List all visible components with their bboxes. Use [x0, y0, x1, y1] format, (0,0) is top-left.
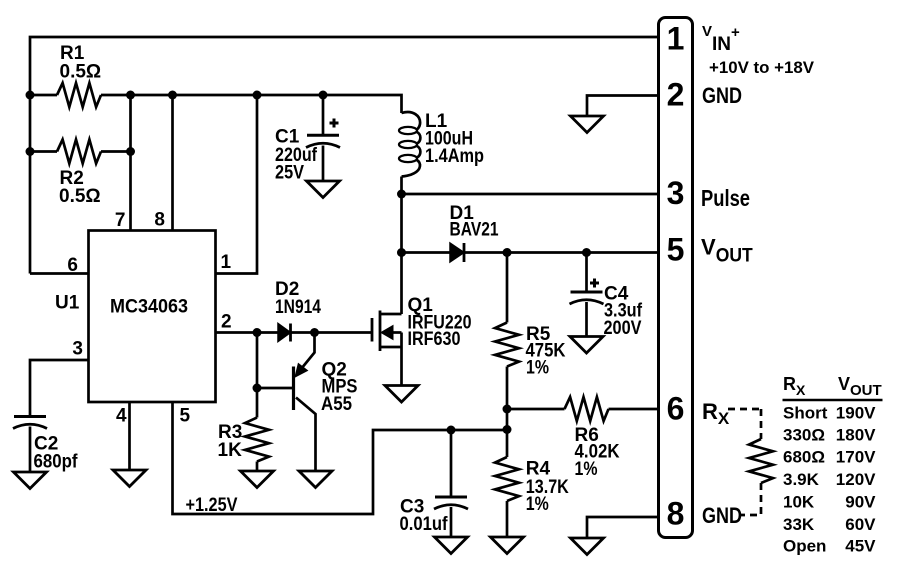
wire pin3 of U1 to C2	[30, 360, 89, 415]
svg-text:1: 1	[667, 21, 685, 57]
wire D2 anode node down to base node	[256, 333, 259, 389]
wire R5/R4 junction segment	[506, 409, 509, 430]
svg-text:Short: Short	[783, 404, 828, 423]
svg-text:4: 4	[116, 406, 127, 427]
node dot D2 anode junction	[253, 328, 262, 337]
node dot rail-R1 left	[26, 91, 35, 100]
wire base line to Q2	[257, 387, 293, 390]
wire dashed Rx down	[760, 409, 763, 439]
wire C3 bottom lead	[450, 507, 453, 537]
wire D2 cathode to Q1 gate	[291, 331, 373, 334]
svg-text:680pf: 680pf	[34, 452, 79, 473]
node dot R4 feedback junction	[503, 425, 512, 434]
svg-text:2: 2	[667, 77, 685, 113]
transistor Q1 MOSFET	[372, 311, 402, 386]
svg-text:3: 3	[72, 339, 83, 360]
svg-text:90V: 90V	[845, 493, 876, 512]
svg-text:GND: GND	[702, 503, 742, 528]
wire pin5 of U1 +1.25V feedback line	[173, 402, 508, 514]
node dot L1 pulse junction	[397, 190, 406, 199]
ground at pin8	[571, 538, 604, 555]
capacitor C4	[570, 279, 604, 305]
node dot D2 cathode junction	[310, 328, 319, 337]
node dot R5 Vout junction	[503, 248, 512, 257]
svg-text:680Ω: 680Ω	[783, 448, 825, 467]
wire R4 top lead	[506, 430, 509, 458]
svg-text:Open: Open	[783, 537, 826, 556]
node dot pin8 rail	[168, 91, 177, 100]
svg-text:1%: 1%	[526, 494, 549, 515]
svg-text:1%: 1%	[575, 459, 598, 480]
svg-text:7: 7	[115, 210, 126, 231]
svg-text:2: 2	[221, 312, 232, 333]
svg-text:5: 5	[667, 232, 685, 268]
node dot R1 right	[126, 91, 135, 100]
svg-text:U1: U1	[55, 293, 80, 314]
diode D1 BAV21	[450, 243, 464, 262]
svg-text:10K: 10K	[783, 493, 815, 512]
svg-text:1.4Amp: 1.4Amp	[425, 146, 484, 167]
capacitor C3	[434, 497, 468, 509]
wire Vout line left of D1	[402, 251, 451, 254]
wire R3 bottom lead	[256, 462, 259, 472]
wire R1 line to L1	[101, 95, 402, 113]
wire C4 bottom lead	[585, 302, 588, 337]
svg-text:IRF630: IRF630	[408, 329, 461, 350]
svg-text:A55: A55	[321, 394, 352, 415]
wire R5 bottom lead	[506, 367, 509, 410]
svg-text:BAV21: BAV21	[450, 220, 499, 241]
wire pin1 of U1 jog up to rail	[216, 95, 258, 274]
wire pin6 of U1 to left rail	[30, 272, 89, 275]
node dot D1 anode junction	[397, 248, 406, 257]
svg-text:3: 3	[667, 175, 685, 211]
ground under Q1 source	[385, 386, 418, 403]
resistor R1	[57, 83, 101, 107]
ground under C1	[307, 181, 340, 198]
ground under R4	[491, 537, 524, 554]
node dot R5 R6 junction	[503, 405, 512, 414]
wire top rail Vin from pin1 to left and down left side	[30, 37, 659, 274]
ground under pin4	[113, 470, 146, 487]
resistor R3	[245, 418, 269, 462]
resistor R4	[495, 457, 519, 501]
ground at pin2	[571, 116, 604, 133]
table header underline	[783, 399, 883, 401]
capacitor C2	[13, 417, 47, 429]
wire pin8 vertical	[171, 95, 174, 231]
svg-text:8: 8	[154, 210, 165, 231]
transistor Q2 MPS A55	[294, 333, 316, 472]
resistor R6	[565, 397, 609, 421]
wire pin8 gnd stub	[587, 517, 659, 538]
wire R2 right to vertical	[101, 150, 131, 153]
svg-text:120V: 120V	[836, 470, 876, 489]
wire pin4 of U1 down	[128, 402, 131, 470]
wire L1 bottom through pulse node and Vout node to Q1 drain	[400, 177, 403, 315]
svg-text:Pulse: Pulse	[701, 185, 750, 211]
node dot C3 junction	[447, 426, 456, 435]
svg-text:60V: 60V	[845, 515, 876, 534]
inductor L1	[399, 112, 420, 176]
svg-text:45V: 45V	[845, 537, 876, 556]
connector box	[659, 18, 693, 538]
wire C2 bottom lead	[29, 427, 32, 473]
node dot R2 right	[126, 147, 135, 156]
ground under Q2	[299, 471, 332, 488]
wire pin2 gnd stub	[587, 96, 659, 117]
wire pin6 line left of R6	[507, 408, 565, 411]
diode D2 1N914	[278, 324, 291, 342]
resistor R5	[495, 323, 519, 367]
wire pin6 line right of R6	[609, 408, 659, 411]
node dot pin1 rail	[253, 91, 262, 100]
svg-text:1%: 1%	[526, 358, 549, 379]
node dot R2 left	[26, 147, 35, 156]
svg-text:0.01uf: 0.01uf	[400, 514, 449, 535]
node dot C1 rail	[319, 91, 328, 100]
wire R4 bottom lead	[506, 501, 509, 537]
wire R3 top lead	[256, 388, 259, 418]
ground under C2	[14, 472, 47, 489]
svg-text:25V: 25V	[275, 163, 304, 184]
svg-text:170V: 170V	[836, 448, 876, 467]
wire C1 bottom lead	[322, 146, 325, 182]
wire C3 top lead	[450, 430, 453, 496]
ground under R3	[241, 471, 274, 488]
svg-text:GND: GND	[702, 83, 742, 108]
svg-text:6: 6	[67, 255, 78, 276]
svg-text:3.9K: 3.9K	[783, 470, 820, 489]
wire pin7 vertical	[129, 95, 132, 231]
capacitor C1	[306, 119, 340, 148]
ground under C4	[570, 337, 603, 354]
IC U1 MC34063 box	[89, 231, 216, 403]
svg-text:330Ω: 330Ω	[783, 426, 825, 445]
svg-text:180V: 180V	[836, 426, 876, 445]
wire C1 top lead	[322, 95, 325, 134]
wire C4 top lead	[585, 253, 588, 292]
svg-text:+10V to +18V: +10V to +18V	[709, 58, 815, 77]
svg-text:5: 5	[180, 406, 191, 427]
resistor Rx	[749, 439, 773, 483]
svg-text:33K: 33K	[783, 515, 815, 534]
svg-text:0.5Ω: 0.5Ω	[59, 186, 101, 207]
svg-text:MC34063: MC34063	[110, 297, 188, 318]
wire R2 line left stub	[30, 150, 57, 153]
svg-text:8: 8	[667, 496, 685, 532]
wire dashed Rx horizontal	[728, 408, 761, 411]
svg-text:1: 1	[221, 252, 232, 273]
wire pin2 of U1 to D2	[216, 331, 279, 334]
svg-text:+1.25V: +1.25V	[186, 495, 238, 516]
node dot C4 Vout junction	[582, 248, 591, 257]
wire Vout line right of D1 to pin5	[464, 251, 659, 254]
svg-text:1N914: 1N914	[275, 297, 321, 318]
node dot Q2 base junction	[253, 384, 262, 393]
wire R1 line left stub	[30, 94, 57, 97]
wire R5 top lead	[506, 253, 509, 323]
wire pulse line to pin3	[402, 193, 659, 196]
svg-text:200V: 200V	[604, 318, 642, 339]
svg-text:0.5Ω: 0.5Ω	[60, 62, 102, 83]
svg-text:190V: 190V	[836, 404, 876, 423]
wire dashed Rx to gnd	[740, 483, 761, 515]
svg-text:1K: 1K	[218, 440, 243, 461]
resistor R2	[57, 140, 101, 164]
svg-text:6: 6	[667, 391, 685, 427]
ground under C3	[435, 537, 468, 554]
